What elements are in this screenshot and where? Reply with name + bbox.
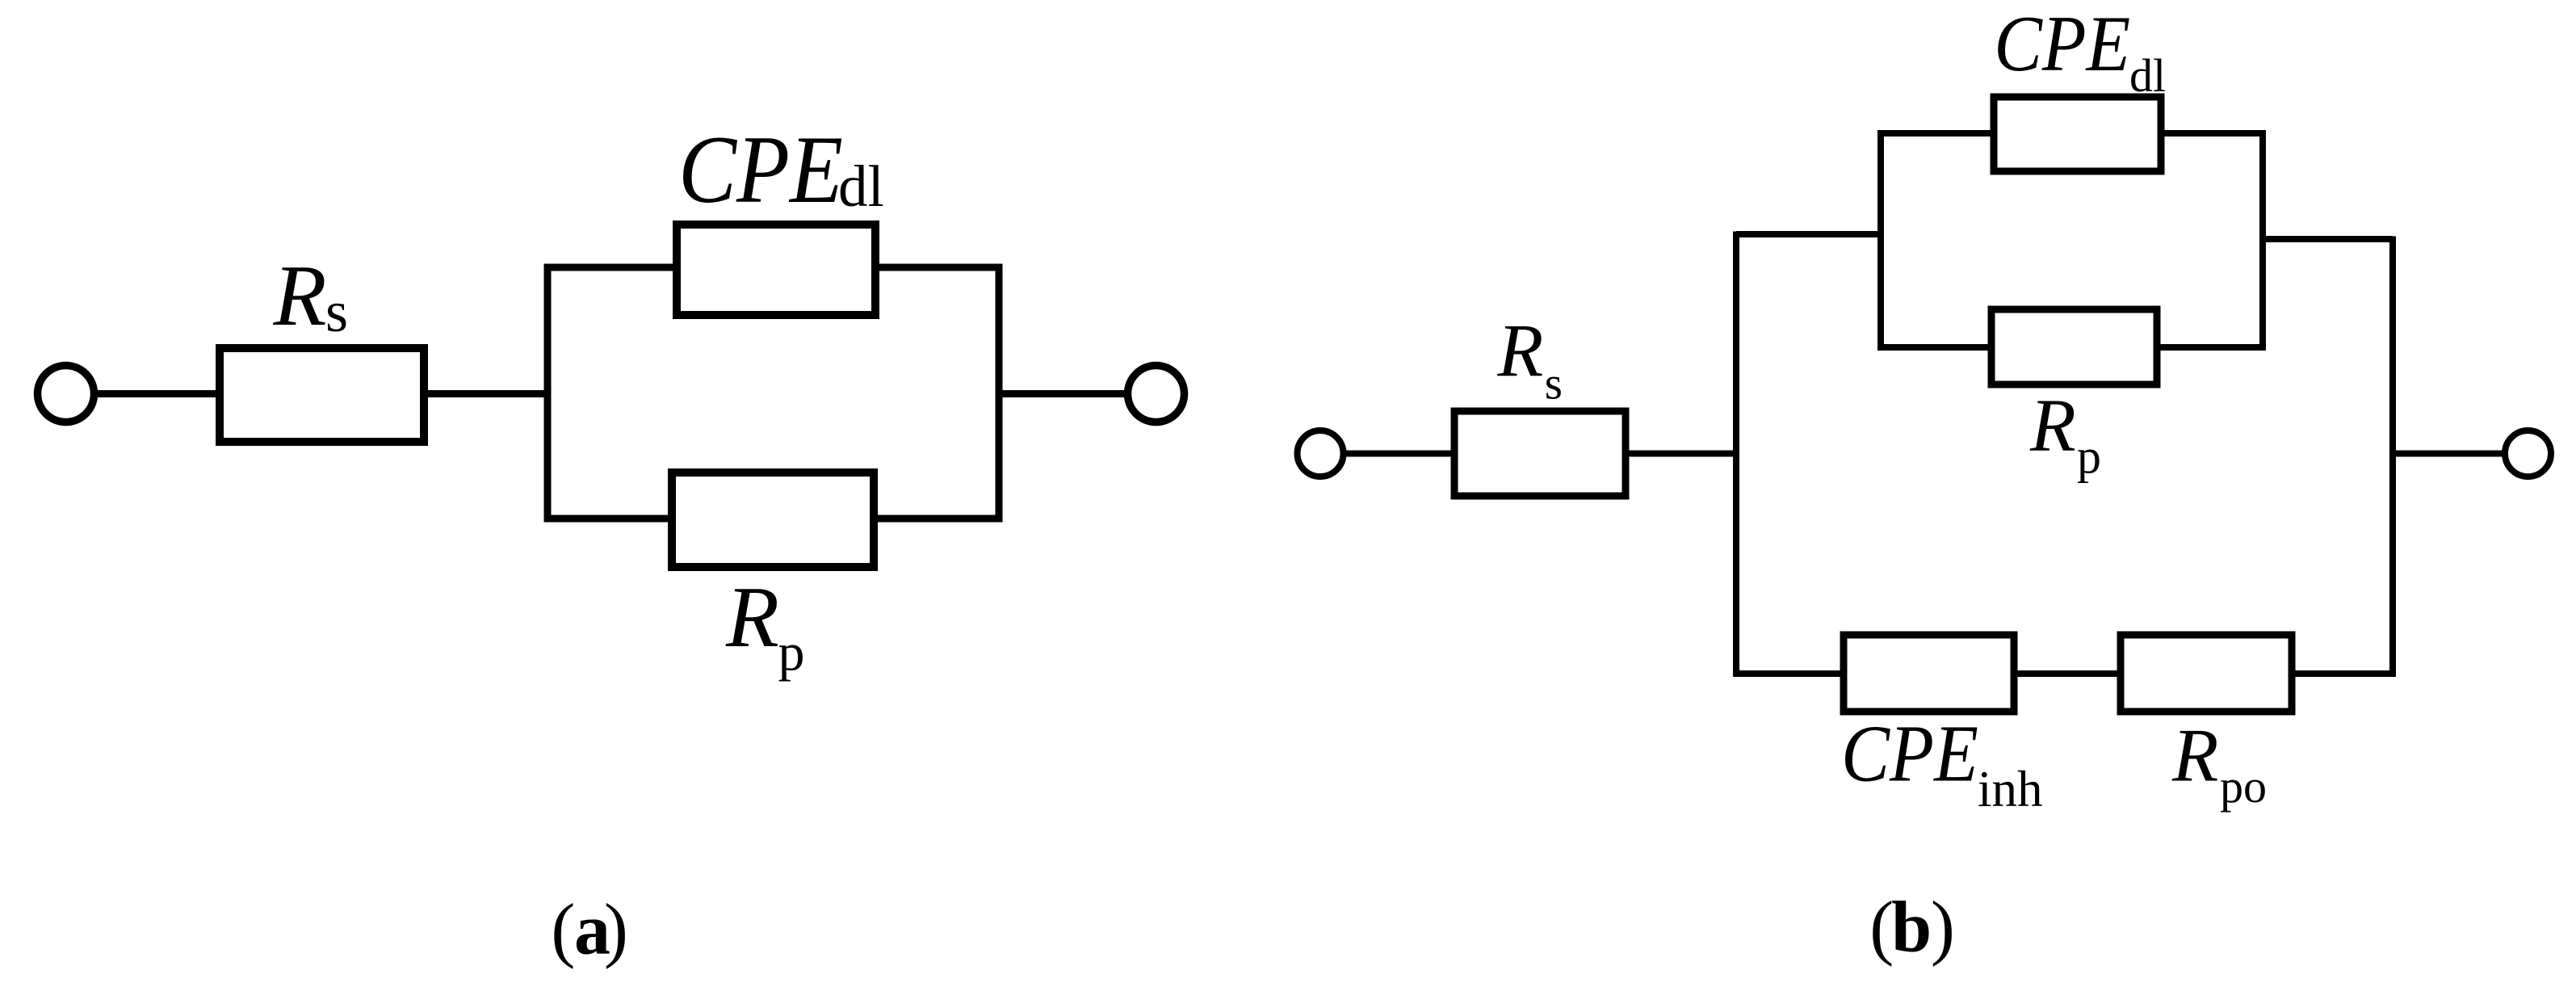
svg-text:R: R: [725, 569, 779, 666]
wire: main loop left bar (b): [1733, 232, 1739, 677]
terminal B2 (circuit b, right): [2505, 431, 2551, 477]
terminal A1 (circuit a, left): [38, 366, 94, 422]
capacitor CPE_dl (b): [1994, 97, 2161, 171]
label Rs (b): [1497, 310, 1563, 410]
svg-text:p: p: [778, 624, 805, 683]
wire: main loop bottom branch (b): [1734, 670, 2396, 677]
svg-text:R: R: [273, 248, 327, 344]
resistor Rs (b): [1454, 411, 1626, 496]
wire: left connector to inner loop (b): [1736, 231, 1881, 237]
wire: Rs (a) to parallel node: [422, 390, 551, 397]
svg-text:inh: inh: [1978, 761, 2043, 817]
svg-text:R: R: [2171, 714, 2218, 798]
label CPEdl (a): [678, 116, 884, 223]
svg-text:CPE: CPE: [678, 116, 843, 223]
svg-text:s: s: [325, 279, 348, 344]
svg-text:p: p: [2077, 430, 2101, 483]
svg-text:dl: dl: [2129, 49, 2166, 102]
wire: right connector from inner loop (b): [2263, 236, 2393, 242]
svg-text:dl: dl: [838, 153, 884, 219]
wire: Rs (b) to main node: [1624, 451, 1739, 457]
label CPEinh (b): [1841, 708, 2043, 818]
label Rs (a): [273, 248, 349, 344]
svg-text:po: po: [2220, 760, 2267, 813]
svg-text:): ): [1931, 888, 1955, 968]
wire: main node to terminal B2: [2393, 451, 2505, 457]
svg-text:): ): [604, 890, 628, 970]
resistor Rs (a): [220, 348, 424, 442]
terminal B1 (circuit b, left): [1298, 431, 1344, 477]
label Rpo (b): [2171, 714, 2267, 813]
svg-text:s: s: [1545, 359, 1563, 410]
resistor Rp (b): [1991, 309, 2157, 384]
caption (b): [1869, 888, 1955, 968]
wire: parallel loop (a) rectangle: [548, 267, 999, 519]
svg-text:CPE: CPE: [1841, 708, 1978, 799]
label Rp (b): [2029, 384, 2101, 483]
label CPEdl (b): [1994, 0, 2166, 102]
wire: main loop right bar (b): [2389, 237, 2396, 677]
wire: parallel node to terminal A2: [999, 390, 1128, 397]
svg-text:CPE: CPE: [1994, 0, 2130, 88]
wire: terminal B1 to resistor Rs (b): [1344, 451, 1457, 457]
svg-text:R: R: [2029, 384, 2076, 468]
svg-text:R: R: [1497, 310, 1544, 393]
terminal A2 (circuit a, right): [1128, 366, 1185, 422]
resistor Rp (a): [672, 473, 874, 567]
wire: terminal A1 to resistor Rs (a): [94, 390, 222, 397]
wire: inner parallel loop (b) rectangle: [1881, 133, 2263, 347]
svg-text:(: (: [551, 890, 575, 970]
capacitor CPE_dl (a): [677, 225, 875, 315]
svg-text:(: (: [1869, 888, 1894, 968]
caption (a): [551, 890, 627, 970]
label Rp (a): [725, 569, 805, 683]
capacitor CPE_inh (b): [1844, 635, 2014, 712]
resistor Rpo (b): [2121, 635, 2292, 712]
svg-text:b: b: [1891, 888, 1932, 968]
